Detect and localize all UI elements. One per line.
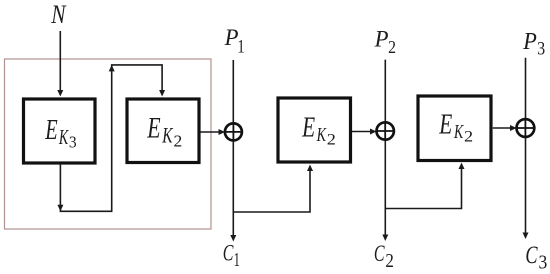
node P3: [522, 28, 545, 59]
node N: [50, 0, 67, 30]
svg-text:P: P: [522, 28, 537, 55]
enclosure rectangle (red group box): [5, 59, 212, 229]
wire P2 column: [382, 60, 388, 241]
svg-text:2: 2: [327, 131, 336, 148]
svg-text:E: E: [301, 113, 315, 143]
svg-text:3: 3: [69, 134, 77, 151]
svg-text:1: 1: [237, 36, 244, 57]
wire N input to E_K3: [57, 31, 63, 97]
svg-text:2: 2: [385, 250, 393, 273]
svg-text:C: C: [525, 240, 538, 269]
svg-text:E: E: [146, 111, 160, 144]
wire middle E_K2 output to XOR2: [352, 129, 377, 135]
block E_K3: [24, 99, 96, 163]
svg-text:E: E: [44, 115, 57, 146]
svg-text:2: 2: [174, 132, 183, 151]
wire E_K3 feedback loop to E_K2: [57, 65, 165, 211]
block E_K2 first: [127, 99, 199, 163]
wire P1 column: [230, 60, 236, 242]
block E_K2 right: [418, 96, 491, 161]
svg-text:K: K: [161, 124, 173, 148]
block E_K2 middle: [278, 98, 351, 162]
xor adder X1: [225, 123, 242, 140]
node C2: [374, 241, 394, 272]
svg-text:C: C: [374, 241, 385, 267]
node P1: [224, 25, 245, 57]
xor adder X2: [377, 122, 394, 139]
wire E_K2 output to XOR1: [201, 129, 226, 135]
wire C1 tap to middle E_K2: [233, 165, 313, 213]
wire C2 tap to right E_K2: [385, 163, 464, 209]
svg-text:2: 2: [464, 128, 473, 145]
svg-text:2: 2: [388, 37, 396, 57]
wire P3 column: [523, 58, 529, 239]
node P2: [374, 27, 396, 58]
svg-text:3: 3: [537, 37, 545, 59]
wire right E_K2 output to XOR3: [493, 125, 517, 131]
node C3: [525, 240, 547, 274]
node C1: [223, 241, 240, 271]
svg-text:K: K: [58, 125, 69, 149]
xor adder X3: [517, 119, 535, 137]
svg-text:P: P: [224, 25, 239, 50]
svg-text:K: K: [316, 124, 327, 146]
svg-text:C: C: [223, 241, 234, 267]
svg-text:3: 3: [539, 252, 548, 274]
svg-text:E: E: [438, 110, 452, 140]
svg-text:1: 1: [234, 248, 240, 271]
svg-text:K: K: [453, 121, 464, 143]
svg-text:N: N: [50, 0, 67, 30]
svg-text:P: P: [374, 27, 389, 52]
